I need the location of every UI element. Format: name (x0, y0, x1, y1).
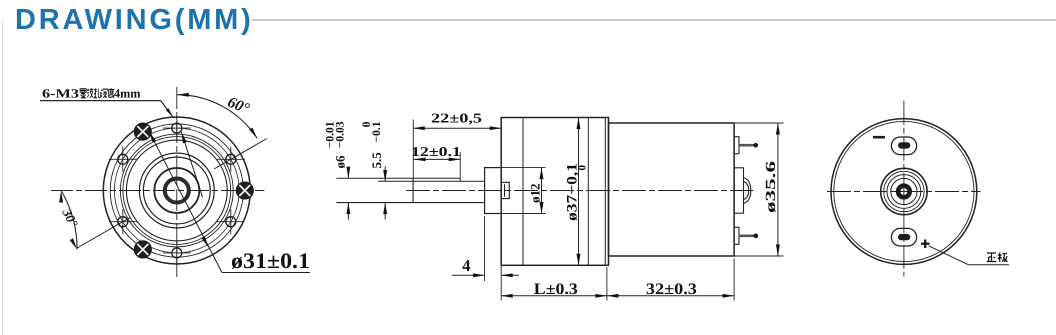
32 dimension line (607, 295, 734, 297)
shaft boss circle (154, 168, 199, 213)
rear inner rim circle (834, 121, 974, 261)
output boss (485, 168, 502, 214)
terminal tab bottom (898, 234, 910, 240)
svg-text:−0.03: −0.03 (335, 121, 347, 148)
svg-text:30°: 30° (59, 205, 82, 230)
svg-text:ø12: ø12 (528, 184, 543, 204)
terminal slot top (891, 137, 916, 155)
hub circle inner (143, 157, 210, 224)
extension line at 30 deg through hole (214, 139, 267, 170)
terminal bottom (734, 227, 739, 244)
gearbox face plate line (522, 118, 524, 266)
12 dimension extension left (412, 120, 414, 179)
header rule (252, 19, 1056, 21)
dia31 dimension line (149, 131, 222, 272)
plus sign (921, 243, 930, 245)
12 dimension extension right (459, 152, 461, 178)
flange outer circle Ø37 (103, 117, 250, 264)
bolt circle Ø31 (114, 128, 239, 253)
step circle B (126, 140, 227, 241)
bearing detail at face (501, 182, 509, 198)
60 degree dimension arc (177, 95, 257, 139)
dia31 arrow upper (149, 131, 156, 142)
dia12 text (528, 184, 543, 204)
middle view axis centerline (406, 190, 754, 192)
minus sign (873, 136, 885, 139)
case screw at 0 deg (236, 182, 253, 199)
motor body (609, 123, 735, 256)
30 dim arrow bottom (70, 238, 77, 249)
leader arrow at top hole from inside (181, 132, 202, 198)
dia37 dimension line (578, 118, 580, 266)
6-M3 label leader (40, 100, 161, 102)
4 dimension line (452, 274, 485, 276)
dia12 extension lines (501, 167, 545, 169)
svg-text:ø6: ø6 (333, 155, 348, 169)
M3 mounting hole at 330 deg (217, 209, 245, 234)
svg-text:0: 0 (577, 165, 589, 171)
svg-text:5.5: 5.5 (369, 152, 384, 169)
60 dim arrow top (177, 93, 189, 97)
svg-text:6-M3: 6-M3 (42, 86, 79, 100)
case screw at 240 deg (134, 241, 151, 258)
gearbox internal stage line (587, 118, 589, 266)
svg-text:−0.1: −0.1 (371, 121, 383, 142)
hub circle outer (139, 153, 214, 228)
svg-text:22±0,5: 22±0,5 (431, 111, 482, 126)
dia35.6 text (764, 161, 779, 213)
dia37 tolerance text (565, 163, 589, 221)
shaft bottom line (336, 202, 484, 204)
rear outer circle (831, 119, 977, 265)
svg-text:ø37−0,1: ø37−0,1 (565, 163, 581, 221)
shaft top line full diameter (336, 177, 460, 179)
extension line at 210 deg through hole (76, 218, 129, 249)
rear view centerline vertical (903, 101, 905, 277)
12 dimension line (413, 158, 460, 160)
22 dimension line (413, 127, 501, 129)
rear bearing dark ring (898, 186, 910, 198)
4 dimension extension lines (484, 216, 486, 281)
svg-text:32±0.3: 32±0.3 (646, 281, 697, 298)
positive pole leader (929, 246, 969, 265)
gearbox case circle (110, 124, 243, 257)
dia12 dimension line (541, 168, 543, 214)
M3 mounting hole at 210 deg (109, 209, 137, 234)
positive pole text (987, 253, 997, 262)
svg-text:4: 4 (462, 256, 470, 275)
svg-text:4mm: 4mm (114, 86, 141, 100)
terminal slot bottom (891, 228, 916, 246)
rear boss circle 1 (881, 168, 927, 214)
32 dimension extension line (733, 259, 735, 301)
shaft bushing thick ring (165, 179, 189, 203)
gearbox body (501, 118, 608, 266)
5.5 tolerance text (361, 121, 384, 168)
endcap bump (734, 168, 743, 213)
front view centerline vertical (176, 87, 178, 277)
svg-text:ø31±0.1: ø31±0.1 (231, 248, 310, 273)
M3 mounting hole at 30 deg (217, 147, 245, 172)
svg-text:ø35.6: ø35.6 (764, 161, 779, 213)
60 dim arrow lower (249, 128, 257, 139)
svg-text:60°: 60° (225, 94, 252, 118)
M3 mounting hole at 270 deg (163, 240, 191, 265)
shaft tip edge (412, 178, 414, 202)
M3 mounting hole at 150 deg (109, 147, 137, 172)
terminal tab top (898, 142, 910, 148)
rear boss circle 2 (884, 171, 924, 211)
rear boss circle 3 (887, 175, 921, 209)
M3 mounting hole at 90 deg (163, 116, 191, 141)
svg-text:12±0.1: 12±0.1 (411, 144, 461, 159)
shaft flat step (459, 178, 461, 181)
step circle A outer (120, 134, 233, 247)
svg-text:L±0.3: L±0.3 (534, 281, 578, 298)
front view centerline horizontal (51, 190, 265, 192)
dia6 dimension line (347, 167, 349, 179)
shaft flat edge line (378, 180, 485, 182)
rear boss circle 4 (891, 178, 917, 204)
5.5 dimension line (384, 167, 386, 182)
dia6 tolerance text (325, 121, 348, 168)
title (15, 4, 254, 37)
30 degree dimension arc (61, 191, 77, 250)
left edge tick (2, 19, 3, 335)
L dimension line (501, 295, 607, 297)
L dimension extension lines (500, 286, 502, 301)
6-M3 label leader arrow (166, 108, 173, 117)
terminal top (734, 137, 739, 154)
rear view centerline horizontal (827, 191, 981, 193)
gearbox rear double line (604, 118, 606, 266)
step circle A inner (123, 137, 231, 245)
dia31 arrow lower (202, 236, 209, 247)
dia35.6 dimension line (777, 123, 779, 256)
dia35.6 extension lines (735, 122, 784, 124)
case screw at 120 deg (134, 123, 151, 140)
30 dim arrow top (59, 191, 63, 203)
